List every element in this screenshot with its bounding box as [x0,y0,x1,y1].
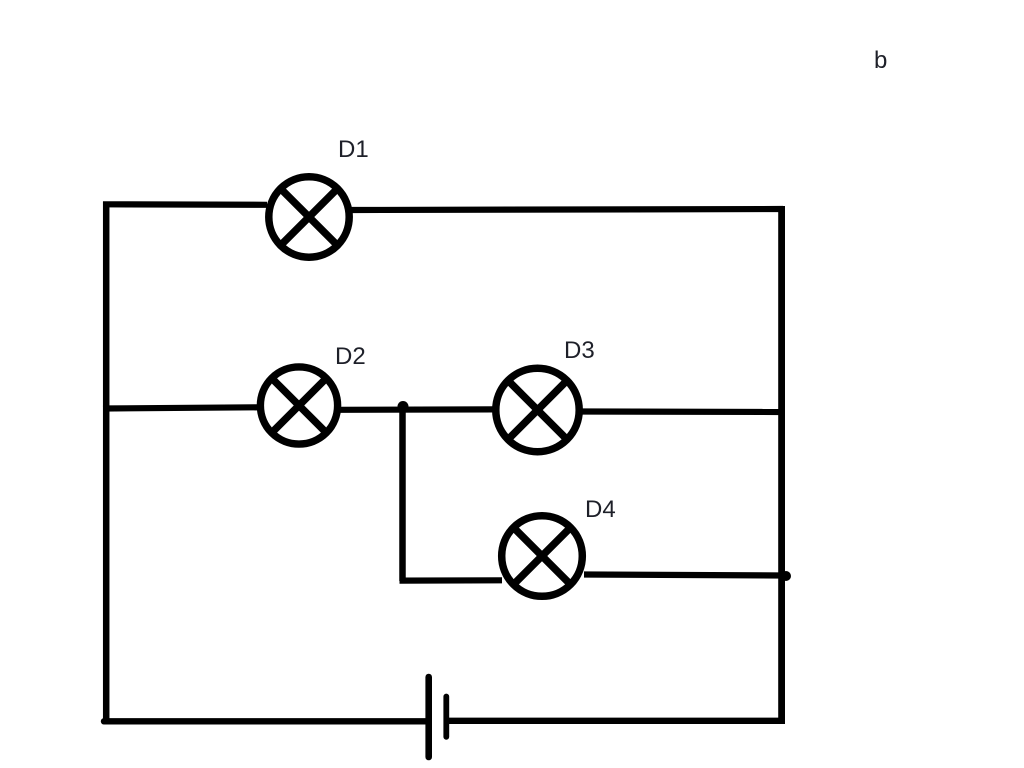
svg-text:b: b [874,47,887,74]
wire: top rail, right of D1 [351,209,783,210]
wire: D4 branch, right of D4 [584,575,783,576]
lamp D2 [260,367,337,444]
wire: right vertical side [778,206,785,722]
wire: middle rail, right of D3 [581,408,783,415]
junction node at branch tap [398,401,409,412]
battery B1 short plate [443,697,449,737]
wire: left vertical side [103,202,110,722]
svg-text:D3: D3 [564,337,595,364]
svg-text:D2: D2 [335,343,366,370]
wire: bottom rail, right of battery [449,718,785,724]
wire: D4 branch, left of D4 [400,577,503,583]
lamp D4 [502,516,583,597]
svg-text:D1: D1 [338,136,369,163]
wire: top rail, left of D1 [103,201,267,208]
junction node at right rail / D4 branch [781,571,791,581]
lamp D1 [269,177,349,257]
wire: bottom rail, left of battery [104,718,426,724]
lamp D3 [496,368,579,451]
battery B1 long plate [425,677,432,757]
wire: middle rail, D2 to D3 [339,406,494,413]
svg-text:D4: D4 [585,496,616,523]
wire: middle rail, left of D2 [103,407,259,408]
wire: branch vertical drop [399,408,406,581]
